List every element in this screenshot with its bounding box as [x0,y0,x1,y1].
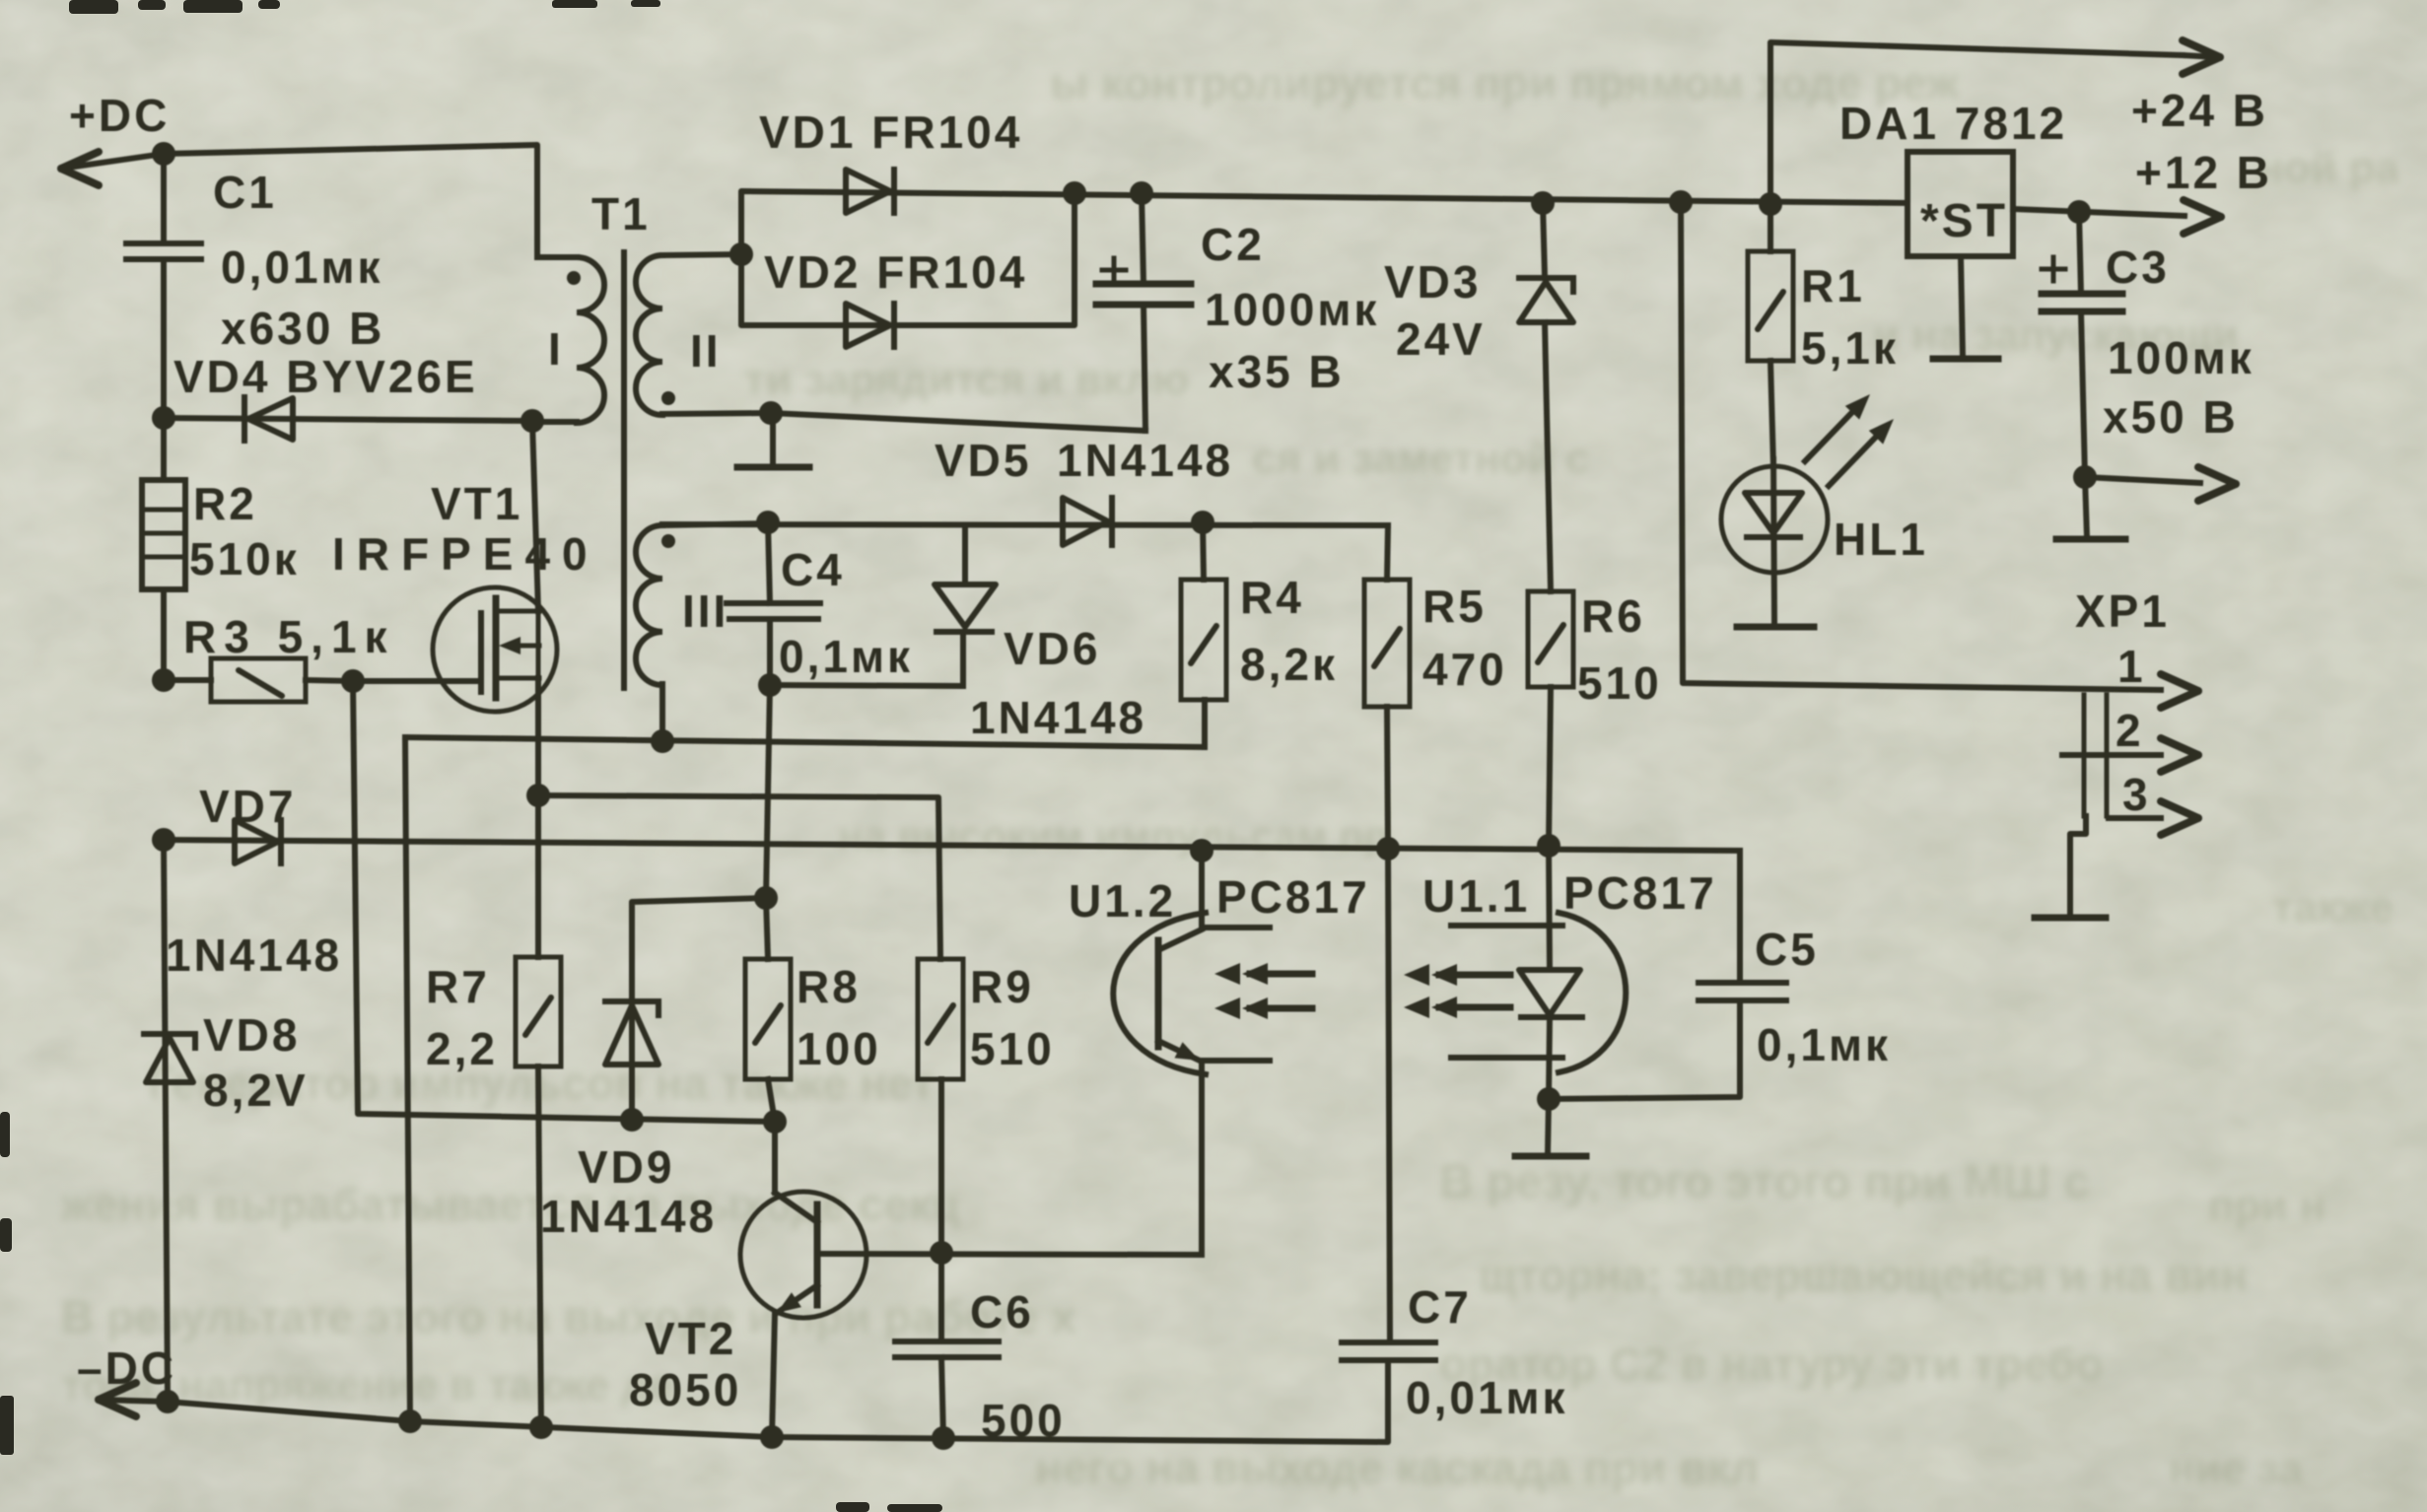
zener VD3 [1519,203,1573,591]
svg-text:0,1мк: 0,1мк [779,631,913,682]
label XP1 pin 3 [2122,769,2151,820]
label -DC [77,1342,176,1394]
winding II phase dot [661,391,675,405]
diode VD4 [164,397,532,441]
svg-text:при н: при н [2208,1182,2325,1230]
wire -DC rail with arrow [99,1362,1388,1442]
svg-text:щторна; завершающейся и на вин: щторна; завершающейся и на вин [1479,1250,2248,1301]
label R4 8,2к [1240,572,1338,690]
svg-text:U1.1: U1.1 [1422,870,1530,922]
svg-text:1N4148: 1N4148 [166,929,342,981]
node VD9 anode junction [620,1108,644,1132]
svg-text:1N4148: 1N4148 [540,1191,717,1242]
svg-text:x630 В: x630 В [221,303,384,354]
svg-text:также: также [2272,883,2393,931]
label R3 5,1к [183,611,395,662]
label R7 2,2 [426,961,498,1074]
capacitor C7 [1342,1342,1435,1360]
svg-text:2,2: 2,2 [426,1023,498,1074]
C3 common bar [2056,477,2125,539]
node R3 left junction [152,668,175,692]
node C4 bottom junction [758,673,782,697]
svg-text:III: III [682,585,728,637]
node VT1 gate junction [341,669,365,693]
wire gate node to VT1 [353,678,481,684]
capacitor C1 [126,243,201,418]
svg-text:HL1: HL1 [1834,514,1928,565]
label +12 В [2135,147,2272,198]
svg-text:C6: C6 [970,1286,1034,1338]
resistor R2 [142,418,185,680]
node VT1 source junction [526,784,550,807]
zener VD8 [144,840,195,1402]
node C3 top junction [2067,200,2091,224]
label HL1 [1834,514,1928,565]
svg-text:C5: C5 [1755,924,1819,975]
node R6 bottom junction [1537,834,1560,858]
label R2 510к [189,478,300,584]
svg-text:VD3: VD3 [1384,256,1481,308]
svg-text:3: 3 [2122,769,2151,820]
svg-text:VD2 FR104: VD2 FR104 [764,246,1027,298]
label XP1 pin 2 [2115,705,2144,756]
diode VD6 [935,525,996,686]
svg-text:0,1мк: 0,1мк [1757,1019,1891,1070]
label winding II [690,325,722,377]
svg-text:PC817: PC817 [1563,867,1717,919]
svg-text:VD7: VD7 [199,781,296,832]
label VD3 24V [1384,256,1486,365]
label C2 value 1000мк x35 В [1201,219,1379,397]
svg-text:ы контролируется при прямом хо: ы контролируется при прямом ходе реж [1050,57,1959,108]
resistor R8 [745,898,791,1122]
svg-text:жения вырабатывается на выходе: жения вырабатывается на выходе секц [60,1179,959,1230]
resistor R6 [1528,591,1573,846]
wire XP1 pin3 [2109,801,2198,835]
svg-text:R9: R9 [970,961,1034,1012]
svg-text:0,01мк: 0,01мк [221,241,383,293]
svg-text:R2: R2 [193,478,257,529]
node C3 bottom junction [2073,465,2097,489]
HL1 light arrows [1805,394,1894,486]
svg-text:1N4148: 1N4148 [970,692,1146,743]
diode VD9 [605,898,766,1120]
svg-text:C4: C4 [781,544,845,595]
svg-text:R1: R1 [1801,260,1865,311]
node winding II top junction [729,242,753,266]
diode VD1 [741,170,1907,254]
LED HL1 [1721,459,1828,627]
svg-text:8050: 8050 [629,1364,741,1415]
resistor R9 [918,959,963,1253]
capacitor C3 polarized [2042,212,2122,477]
resistor R5 [1364,525,1410,849]
label VD1 FR104 [759,106,1022,158]
label VD6 1N4148 [970,623,1146,743]
optocoupler U1.2 PC817 phototransistor [1113,851,1270,1255]
label winding III [682,585,728,637]
node XP1 branch junction [1669,190,1693,214]
svg-text:8,2к: 8,2к [1240,639,1338,690]
svg-text:510: 510 [970,1023,1055,1074]
label R9 510 [970,961,1055,1074]
label R6 510 [1577,590,1662,709]
label C3 value 100мк x50 В [2103,241,2254,443]
label U1.1 PC817 [1422,867,1717,922]
svg-text:+12 В: +12 В [2135,147,2272,198]
svg-text:ние за: ние за [2169,1445,2304,1493]
wire VT2 base line [817,1254,1202,1255]
svg-text:x35 В: x35 В [1209,346,1345,397]
label VD9 1N4148 [540,1141,717,1242]
label R5 470 [1422,581,1507,695]
svg-text:510: 510 [1577,657,1662,709]
svg-text:R3 5,1к: R3 5,1к [183,611,395,662]
label +24 В [2131,85,2268,136]
svg-text:R4: R4 [1240,572,1304,623]
svg-text:VD8: VD8 [203,1009,300,1061]
label C6 value 500 [970,1286,1066,1446]
node VD3 top junction [1531,191,1555,215]
svg-text:В результате этого на выходе и: В результате этого на выходе и при работ… [61,1291,1076,1342]
wire R5 junction down to C7 [1388,849,1390,1342]
capacitor C6 [895,1253,999,1438]
svg-text:C3: C3 [2106,241,2170,293]
wire control rail (VD7 rail) [164,840,1740,851]
diode VD7 [235,820,281,863]
capacitor C5 [1549,851,1786,1099]
transformer T1 winding III [636,523,768,741]
wire C4 to VD6 bottom [770,685,963,686]
svg-text:ти зарядится и вклю: ти зарядится и вклю [744,356,1189,404]
svg-text:510к: 510к [189,533,300,584]
svg-text:VD9: VD9 [578,1141,674,1193]
label C4 value 0,1мк [779,544,913,682]
svg-text:В резу, того этого при МШ с: В резу, того этого при МШ с [1439,1156,2090,1208]
node C2 positive junction [1130,181,1153,205]
wire winding II bottom to C2 [771,413,1145,431]
label T1 [591,188,651,240]
svg-text:2: 2 [2115,705,2144,756]
node return rail -DC junction [398,1409,422,1433]
svg-text:VD4 BYV26E: VD4 BYV26E [173,351,478,402]
wire gate node down to clamp rail [353,681,775,1122]
svg-text:470: 470 [1422,644,1507,695]
node U1.1 cathode junction [1537,1087,1560,1111]
node R5 C7 junction [1376,837,1400,860]
label VD2 FR104 [764,246,1027,298]
svg-text:1N4148: 1N4148 [1057,435,1233,486]
label +DC [69,90,170,141]
wire +12V output [2013,200,2221,234]
wire VT1 source to R9 [538,795,940,959]
svg-text:C1: C1 [213,167,277,218]
node +DC terminal [152,142,175,166]
wire VT1 source [535,678,541,795]
transformer T1 winding I [532,257,604,423]
U1.1 light arrows [1404,964,1510,1018]
label C7 value 0,01мк [1406,1281,1568,1423]
transformer T1 core [621,252,627,688]
node C6 top junction [930,1241,953,1265]
svg-text:8,2V: 8,2V [203,1065,309,1116]
node R4 top junction [1191,511,1214,534]
node VD2 cathode junction [1063,181,1086,205]
DA1 ground pin [1933,256,1998,359]
winding I phase dot [567,271,581,285]
node VD7 left junction [152,828,175,852]
svg-text:R7: R7 [426,961,490,1012]
svg-text:5,1к: 5,1к [1801,322,1899,374]
svg-text:VD6: VD6 [1004,623,1100,674]
label R1 5,1к [1801,260,1899,374]
svg-text:C2: C2 [1201,219,1265,270]
node VT1 drain junction [520,409,544,433]
label VD5 1N4148 [935,435,1233,486]
U1.2 light arrows [1214,963,1312,1019]
node C6 bottom -DC junction [932,1426,955,1450]
label C1 value 0,01мк x630 В [213,167,384,354]
wire winding III return rail [405,737,1205,747]
svg-text:XP1: XP1 [2075,585,2170,637]
resistor R7 [516,795,561,1429]
svg-text:24V: 24V [1396,313,1486,365]
svg-text:–DC: –DC [77,1342,176,1394]
svg-text:+24 В: +24 В [2131,85,2268,136]
capacitor C4 [727,522,820,685]
svg-text:T1: T1 [591,188,651,240]
node VT2 collector junction [763,1110,787,1134]
svg-text:0,01мк: 0,01мк [1406,1372,1568,1423]
wire C4 line down to R8 [766,685,770,898]
node U1.2 collector junction [1190,839,1213,862]
node C4 top junction [756,511,780,534]
diode VD2 [741,193,1075,347]
label DA1 7812 [1839,98,2067,149]
label VD7 1N4148 [166,781,342,981]
label C5 value 0,1мк [1755,924,1891,1070]
svg-text:U1.2: U1.2 [1069,875,1176,927]
optocoupler U1.1 PC817 LED [1451,846,1626,1099]
node VD4 left junction [152,406,175,430]
transformer T1 winding II [636,254,771,415]
diode VD5 [1063,498,1112,545]
label winding I [548,323,564,375]
label U1.2 PC817 [1069,871,1370,927]
svg-text:I: I [548,323,564,375]
svg-text:100: 100 [797,1023,881,1074]
wire left rail upper [161,154,167,241]
svg-text:ной ра: ной ра [2257,144,2400,192]
ground winding II [737,401,809,467]
node R8 top junction [754,886,778,910]
voltage regulator DA1 7812 [1907,152,2013,256]
label R8 100 [797,961,881,1074]
svg-text:IRFPE40: IRFPE40 [332,528,599,580]
svg-text:1000мк: 1000мк [1205,284,1379,335]
svg-text:R6: R6 [1581,590,1645,642]
node -DC terminal [156,1390,179,1413]
node R7 bottom -DC junction [529,1415,553,1439]
svg-text:+DC: +DC [69,90,170,141]
wire winding I to VT1 drain [532,421,538,611]
winding III phase dot [661,534,675,548]
label XP1 [2075,585,2170,637]
wire XP1 pin1 [1681,202,2198,708]
wire +24V branch up [1759,40,2220,216]
svg-text:*ST: *ST [1920,195,2008,247]
svg-text:VD1 FR104: VD1 FR104 [759,106,1022,158]
svg-text:VT1: VT1 [431,478,522,529]
label VT1 IRFPE40 [332,478,599,580]
label VT2 8050 [629,1313,741,1415]
transistor VT1 IRFPE40 MOSFET [433,587,557,712]
wire VD5 rail [662,524,1388,525]
svg-text:R8: R8 [797,961,861,1012]
U1.1 cathode common bar [1515,1099,1586,1156]
svg-text:него на выходе каскада при вкл: него на выходе каскада при вкл [1035,1442,1759,1493]
resistor R1 [1748,204,1793,467]
label VD8 8,2V [203,1009,309,1116]
resistor R3 [164,658,353,702]
XP1 common bar [2035,816,2106,918]
wire XP1 pin2 [2062,738,2198,772]
node VT2 emitter -DC junction [760,1425,784,1449]
svg-text:100мк: 100мк [2108,332,2254,383]
svg-text:500: 500 [981,1395,1066,1446]
svg-text:II: II [690,325,722,377]
svg-text:x50 В: x50 В [2103,391,2239,443]
svg-text:DA1 7812: DA1 7812 [1839,98,2067,149]
wire return rail down to -DC [405,737,410,1421]
transistor VT2 8050 [740,1122,867,1437]
svg-text:C7: C7 [1408,1281,1472,1333]
svg-text:R5: R5 [1422,581,1487,632]
capacitor C2 polarized [1096,193,1191,431]
resistor R4 [1181,522,1226,747]
connector XP1 contact bars [2084,695,2107,816]
wire 0V output arrow [2085,467,2236,501]
node winding III bottom junction [651,729,674,753]
svg-text:1: 1 [2117,641,2146,692]
label VD4 BYV26E [173,351,478,402]
svg-text:VD5: VD5 [935,435,1031,486]
label XP1 pin 1 [2117,641,2146,692]
svg-text:ся и заметной с: ся и заметной с [1252,435,1590,483]
wire +DC input with arrow [61,145,537,257]
svg-text:на высоким импульсам пр: на высоким импульсам пр [838,812,1389,859]
svg-text:PC817: PC817 [1216,871,1370,923]
svg-text:VT2: VT2 [645,1313,736,1364]
